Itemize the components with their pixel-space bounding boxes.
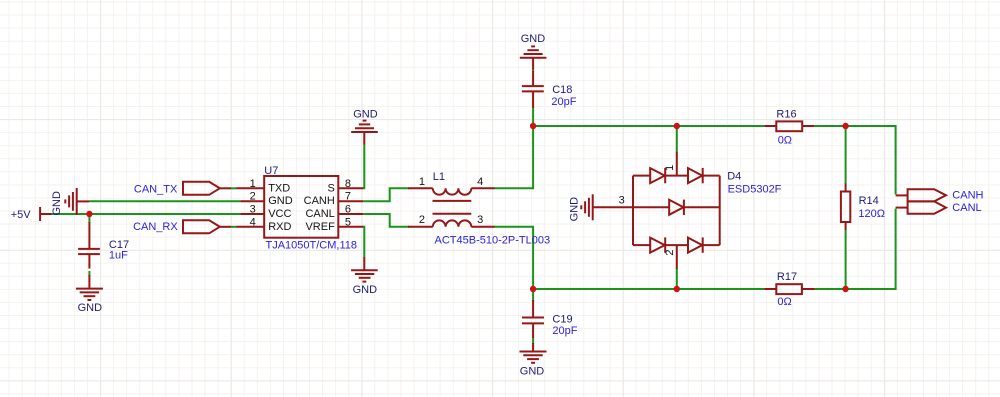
svg-text:1: 1	[419, 176, 425, 188]
svg-text:+5V: +5V	[11, 209, 32, 221]
U7 pin 7 stub	[338, 200, 363, 202]
svg-text:TJA1050T/CM,118: TJA1050T/CM,118	[266, 239, 358, 251]
svg-text:GND: GND	[521, 33, 546, 45]
svg-text:20pF: 20pF	[551, 96, 576, 108]
svg-text:2: 2	[664, 249, 676, 255]
wire VREF pin to GND symbol	[363, 227, 365, 258]
U7 pin 3 stub	[240, 213, 264, 215]
capacitor C18	[522, 71, 544, 108]
svg-text:R17: R17	[777, 271, 797, 283]
wire C19 lead	[532, 289, 534, 301]
wire L1 pin4 to CANH rail	[494, 126, 534, 188]
net flag CAN_RX	[183, 220, 231, 233]
svg-text:R14: R14	[859, 195, 879, 207]
wire CAN_TX to pin1	[231, 187, 238, 189]
svg-text:4: 4	[250, 216, 256, 228]
junction dot CANL/C19	[530, 286, 536, 292]
svg-text:0Ω: 0Ω	[777, 296, 791, 308]
wire CANH jog pin7 to L1 pin1	[363, 188, 409, 201]
svg-text:3: 3	[250, 204, 256, 216]
svg-text:CAN_TX: CAN_TX	[134, 184, 178, 196]
svg-text:CANH: CANH	[952, 190, 983, 202]
resistor R14	[841, 184, 850, 231]
ground GND below pin VREF	[351, 257, 378, 282]
wire C18 lead to CANH rail	[532, 107, 534, 126]
svg-text:GND: GND	[353, 109, 378, 121]
svg-text:7: 7	[345, 191, 351, 203]
svg-text:GND: GND	[353, 284, 378, 296]
svg-text:GND: GND	[78, 302, 103, 314]
ground GND above pin S	[351, 121, 378, 145]
svg-text:R16: R16	[776, 109, 796, 121]
diode array D4 ESD5302F	[633, 152, 720, 269]
svg-text:L1: L1	[433, 171, 445, 183]
wire R16 to corner and down to CANH flag	[814, 126, 895, 194]
junction dot CANL/D4	[674, 286, 680, 292]
svg-text:C18: C18	[552, 84, 572, 96]
svg-text:1: 1	[250, 178, 256, 190]
svg-text:3: 3	[619, 194, 625, 206]
ground GND left rotated	[65, 188, 89, 215]
svg-text:2: 2	[250, 191, 256, 203]
wire CANL rail	[533, 288, 764, 290]
U7 pin 4 stub	[237, 226, 265, 228]
U7 pin 1 stub	[237, 187, 265, 189]
wire C19 to GND gap	[532, 337, 534, 344]
wire C18 to GND gap	[532, 69, 534, 73]
U7 pin 2 stub	[240, 200, 264, 202]
net flag CANL	[896, 201, 946, 213]
svg-text:CANL: CANL	[305, 208, 334, 220]
svg-text:ACT45B-510-2P-TL003: ACT45B-510-2P-TL003	[435, 234, 551, 246]
ground GND above C18	[520, 46, 547, 69]
svg-text:1: 1	[664, 165, 676, 171]
junction dot CANH/C18	[530, 123, 536, 129]
svg-text:U7: U7	[264, 165, 278, 177]
U7 pin 5 stub	[338, 226, 363, 228]
resistor R17	[764, 284, 815, 294]
wire R17 to corner and up to CANL flag	[815, 209, 896, 289]
wire CANL jog pin6 to L1 pin2	[363, 214, 409, 227]
svg-text:GND: GND	[51, 191, 63, 216]
wire D4 pin1 drop	[676, 126, 678, 153]
U7 pin 8 stub	[338, 187, 363, 189]
capacitor C19	[522, 300, 544, 338]
power port +5V	[40, 207, 51, 221]
wire L1 pin3 to CANL rail	[494, 227, 534, 289]
svg-text:CANL: CANL	[952, 202, 981, 214]
net flag CAN_TX	[183, 182, 231, 195]
junction dot +5V/C17	[86, 211, 92, 217]
wire R14 top	[845, 126, 847, 184]
svg-text:GND: GND	[569, 197, 581, 222]
svg-text:VREF: VREF	[305, 221, 335, 233]
junction dot CANH/R14	[842, 123, 848, 129]
svg-text:8: 8	[345, 178, 351, 190]
svg-text:CAN_RX: CAN_RX	[133, 221, 178, 233]
resistor R16	[764, 121, 814, 131]
svg-text:2: 2	[419, 214, 425, 226]
wire R14 bottom	[845, 230, 847, 290]
wire S pin to GND symbol	[363, 144, 365, 188]
svg-text:GND: GND	[520, 365, 545, 377]
wire CANH rail	[533, 125, 764, 127]
wire CAN_RX to pin4	[231, 226, 238, 228]
svg-text:0Ω: 0Ω	[778, 134, 792, 146]
ground GND at D4 pin3 rotated	[581, 194, 632, 220]
wire GND net horizontal to pin2	[89, 200, 240, 202]
U7 pin 6 stub	[338, 213, 363, 215]
svg-text:1uF: 1uF	[109, 250, 128, 262]
svg-text:D4: D4	[727, 171, 741, 183]
svg-text:VCC: VCC	[268, 208, 291, 220]
net flag CANH	[896, 189, 946, 201]
svg-text:GND: GND	[268, 195, 293, 207]
svg-text:S: S	[327, 182, 334, 194]
svg-text:ESD5302F: ESD5302F	[728, 183, 782, 195]
svg-text:3: 3	[477, 214, 483, 226]
junction dot CANH/D4	[674, 123, 680, 129]
svg-text:RXD: RXD	[268, 221, 291, 233]
op-amp U7 body TJA1050	[264, 176, 338, 238]
ground GND below C19	[520, 343, 547, 363]
svg-text:TXD: TXD	[268, 182, 290, 194]
junction dot CANL/R14	[842, 286, 848, 292]
wire junction +5V to C17	[88, 214, 90, 223]
svg-text:20pF: 20pF	[552, 325, 577, 337]
wire D4 pin2 drop	[676, 268, 678, 289]
svg-text:5: 5	[345, 216, 351, 228]
wire C17 to GND gap	[88, 271, 90, 277]
svg-text:4: 4	[477, 176, 483, 188]
svg-text:C19: C19	[552, 314, 572, 326]
svg-text:CANH: CANH	[304, 195, 335, 207]
capacitor C17	[78, 222, 100, 269]
svg-text:120Ω: 120Ω	[858, 208, 885, 220]
ground GND below C17	[76, 275, 103, 300]
inductor L1 common-mode choke	[408, 188, 495, 227]
svg-text:6: 6	[345, 204, 351, 216]
wire +5V net horizontal	[52, 213, 241, 215]
